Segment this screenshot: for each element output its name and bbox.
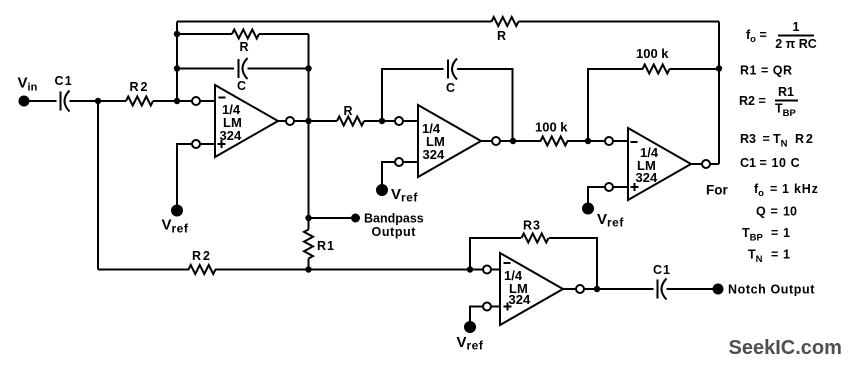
wire bandpass tap to terminal bbox=[309, 217, 352, 219]
wire top feedback left segment bbox=[177, 21, 492, 23]
svg-text:C: C bbox=[446, 81, 455, 95]
op-amp U4 1/4 LM324 bbox=[483, 253, 584, 325]
resistor 100k (op3 feedback) bbox=[643, 65, 670, 74]
node op1 feedback drop to C bbox=[305, 65, 311, 71]
svg-text:324: 324 bbox=[509, 292, 531, 307]
svg-text:Output: Output bbox=[372, 225, 417, 239]
power Vref (op4) bbox=[464, 321, 476, 333]
resistor R (op1 feedback) bbox=[232, 30, 259, 39]
svg-text:R1: R1 bbox=[778, 85, 794, 99]
svg-text:100 k: 100 k bbox=[636, 46, 669, 61]
resistor R3 (op4 feedback) bbox=[522, 234, 549, 243]
input terminal Vin bbox=[19, 96, 30, 107]
wire op1 feedback drop bbox=[308, 34, 310, 121]
svg-text:2 π RC: 2 π RC bbox=[775, 37, 817, 51]
capacitor C1 (output coupling) bbox=[657, 280, 659, 299]
formula R2 = R1/TBP bbox=[739, 85, 798, 119]
svg-text:R2: R2 bbox=[192, 249, 212, 263]
power Vref (op2) bbox=[376, 184, 388, 196]
node op4 output feedback junction bbox=[594, 286, 600, 292]
node op1 output junction bbox=[305, 118, 311, 124]
wire C1 to notch terminal bbox=[667, 288, 714, 290]
svg-text:For: For bbox=[706, 183, 728, 198]
resistor R (op1 to op2) bbox=[337, 117, 364, 126]
svg-text:324: 324 bbox=[423, 147, 445, 162]
power Vref (op3) bbox=[582, 203, 594, 215]
resistor R2 (input) bbox=[126, 97, 153, 106]
svg-text:324: 324 bbox=[636, 170, 658, 185]
wire op1 noninverting input to Vref bbox=[177, 144, 192, 205]
svg-text:C1: C1 bbox=[55, 74, 73, 88]
node op3 input feedback tap bbox=[585, 138, 591, 144]
wire input node down bbox=[97, 101, 99, 270]
svg-text:R3: R3 bbox=[523, 219, 541, 233]
node op2 input C feedback tap bbox=[379, 118, 385, 124]
wire op1 output bbox=[294, 120, 337, 122]
terminal Bandpass Output bbox=[351, 214, 360, 223]
node op2 output feedback junction bbox=[510, 138, 516, 144]
svg-text:R2 =: R2 = bbox=[739, 94, 766, 108]
op-amp U3 1/4 LM324 bbox=[605, 128, 710, 200]
resistor R2 (lower) bbox=[189, 265, 216, 274]
wire op4 R3 feedback right bbox=[549, 238, 597, 289]
wire op1 C feedback left bbox=[177, 68, 234, 70]
wire op3 feedback to riser bbox=[670, 68, 720, 70]
resistor R1 bbox=[304, 230, 313, 259]
wire op2 C feedback up bbox=[382, 69, 444, 121]
wire op1 output to bandpass tap bbox=[308, 121, 310, 230]
wire R to op2 inverting input bbox=[364, 120, 396, 122]
svg-text:R: R bbox=[240, 40, 249, 54]
wire op1 R feedback left bbox=[177, 33, 232, 35]
node op4 inverting input junction bbox=[467, 266, 473, 272]
capacitor C (op1 feedback) bbox=[238, 59, 240, 78]
wire op2 output bbox=[500, 140, 541, 142]
capacitor C (op2 feedback) bbox=[447, 60, 449, 79]
svg-text:R1 = QR: R1 = QR bbox=[740, 64, 792, 78]
node riser to 100k feedback bbox=[716, 65, 722, 71]
wire op2 C feedback down bbox=[457, 69, 513, 141]
op-amp U2 1/4 LM324 bbox=[395, 105, 500, 177]
wire 100k to op3 inverting input bbox=[567, 140, 606, 142]
wire op3 output to riser bbox=[710, 163, 719, 165]
wire op3 output riser bbox=[718, 22, 720, 165]
node rail to C feedback bbox=[174, 65, 180, 71]
wire C1 to input node bbox=[70, 100, 127, 102]
wire op1 C feedback right bbox=[248, 68, 309, 70]
wire op3 noninverting input to Vref bbox=[588, 187, 606, 203]
wire R1 to bottom junction bbox=[308, 259, 310, 270]
wire op4 output bbox=[584, 288, 654, 290]
terminal Notch Output bbox=[713, 284, 724, 295]
resistor 100k (op2 to op3) bbox=[541, 137, 568, 146]
wire left feedback rail bbox=[176, 22, 178, 102]
svg-text:Q=10: Q=10 bbox=[756, 205, 797, 219]
wire op1 R feedback right bbox=[259, 33, 309, 35]
svg-text:1: 1 bbox=[793, 20, 800, 34]
svg-text:SeekIC.com: SeekIC.com bbox=[729, 337, 842, 359]
node rail to R feedback bbox=[174, 31, 180, 37]
node input junction bbox=[95, 98, 101, 104]
formula fo = 1/(2 pi RC) bbox=[746, 20, 817, 51]
wire R2 to op1 inverting input bbox=[153, 100, 192, 102]
resistor R (main loop feedback) bbox=[492, 17, 519, 26]
wire op4 R3 feedback left bbox=[470, 238, 521, 270]
wire top feedback right segment bbox=[519, 21, 720, 23]
svg-text:R: R bbox=[497, 29, 506, 43]
node A op1 inverting input bbox=[174, 98, 180, 104]
wire op2 noninverting input to Vref bbox=[382, 162, 396, 185]
wire op3 feedback up bbox=[588, 69, 643, 141]
node bandpass tap bbox=[305, 215, 311, 221]
svg-text:C: C bbox=[237, 79, 246, 93]
svg-text:324: 324 bbox=[220, 128, 242, 143]
wire bottom left segment bbox=[98, 269, 189, 271]
svg-text:R: R bbox=[344, 104, 353, 118]
op-amp U1 1/4 LM324 bbox=[192, 85, 294, 157]
svg-text:C1: C1 bbox=[653, 263, 671, 277]
wire Vin to C1 bbox=[29, 100, 57, 102]
wire op4 noninverting input to Vref bbox=[470, 307, 483, 322]
svg-text:R2: R2 bbox=[130, 80, 150, 94]
capacitor C1 (input coupling) bbox=[60, 92, 62, 111]
svg-text:100 k: 100 k bbox=[535, 120, 568, 135]
svg-text:Bandpass: Bandpass bbox=[364, 212, 424, 226]
node R1 bottom junction bbox=[305, 266, 311, 272]
wire R2 to op4 inverting input bbox=[215, 269, 483, 271]
svg-text:Notch Output: Notch Output bbox=[728, 283, 815, 297]
svg-text:R1: R1 bbox=[317, 239, 335, 253]
power Vref (op1) bbox=[171, 205, 183, 217]
